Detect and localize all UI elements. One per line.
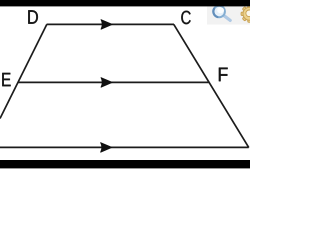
bottom side: [0, 146, 249, 148]
parallel arrows: [101, 20, 113, 153]
labels: [2, 10, 227, 86]
top side DC: [47, 23, 174, 25]
magnifier icon: [213, 6, 230, 21]
label E: [2, 73, 10, 86]
label F: [219, 68, 228, 82]
label D: [28, 10, 38, 23]
label C: [181, 11, 190, 24]
top black bar: [0, 0, 250, 6]
toolbar panel top-right: [207, 5, 250, 25]
right leg: [174, 24, 249, 147]
trapezoid lines: [0, 24, 249, 147]
middle segment EF: [18, 81, 210, 83]
bottom black bar: [0, 160, 250, 168]
gear icon: [241, 5, 258, 22]
left leg: [0, 24, 47, 118]
